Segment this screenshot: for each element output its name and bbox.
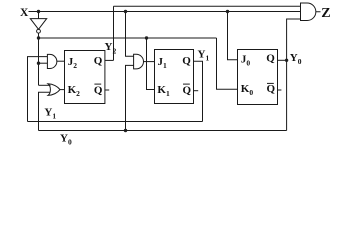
svg-text:Q: Q xyxy=(183,84,192,96)
svg-text:Q: Q xyxy=(182,55,191,67)
wire Qbar1 stub xyxy=(194,90,198,92)
wire Qbar0 stub xyxy=(278,89,282,91)
junction X to G3 xyxy=(124,10,127,13)
wire X' to G2 input xyxy=(39,84,51,86)
wire Y2 riser xyxy=(113,6,115,60)
wire X to inverter xyxy=(38,12,40,19)
wire Qbar2 stub xyxy=(105,89,109,91)
wire G2 to K2 xyxy=(60,89,65,91)
wire X' down to K1 xyxy=(147,38,155,90)
junction X to J0 xyxy=(226,10,229,13)
svg-text:Q: Q xyxy=(94,55,103,67)
wire Q1 out and Y1 riser xyxy=(194,61,203,121)
and-gate G3 xyxy=(134,54,144,69)
and-gate G1 xyxy=(47,54,56,68)
svg-text:X: X xyxy=(20,7,29,19)
svg-text:Q: Q xyxy=(94,84,103,96)
junction Q0 to Z riser xyxy=(285,59,288,62)
junction X to inverter xyxy=(37,10,40,13)
wire G4 to Z xyxy=(316,11,321,13)
or-gate G2 xyxy=(48,84,60,96)
wire Y2 top bus xyxy=(114,5,301,7)
wire Y0 feedback bus xyxy=(39,130,287,132)
junction X' to K1 xyxy=(145,36,148,39)
wire Y0 riser to G4 xyxy=(287,19,301,131)
wire Y0 up to G3 xyxy=(126,65,134,130)
svg-text:Z: Z xyxy=(321,6,330,21)
wire Q2 out xyxy=(105,59,114,61)
inverter U1 xyxy=(30,19,46,30)
junction X' to G1 xyxy=(37,62,40,65)
wire X bus xyxy=(29,11,301,13)
wire X down to J0 xyxy=(228,12,238,60)
wire Y1 feedback riser xyxy=(28,57,48,122)
wire X' vertical xyxy=(38,33,40,85)
junction X' tee xyxy=(37,36,40,39)
wire X' down to K0 xyxy=(217,38,238,89)
svg-text:Q: Q xyxy=(267,83,276,95)
flip-flop FF2 xyxy=(65,51,105,104)
wire G3 to J1 xyxy=(144,61,155,63)
and-gate G4 xyxy=(301,3,316,21)
svg-text:Q: Q xyxy=(266,53,275,65)
wire X down to G3 xyxy=(126,12,134,57)
junction Y0 to G3 xyxy=(124,129,127,132)
flip-flop FF1 xyxy=(155,50,194,104)
wire G1 to J2 xyxy=(57,60,65,62)
wire X' horizontal bus xyxy=(39,37,217,39)
flip-flop FF0 xyxy=(238,50,278,105)
wire X' to G1 input xyxy=(39,62,48,64)
wire Y1 feedback bus xyxy=(28,121,203,123)
wire Q0 out xyxy=(278,59,287,61)
wire Y0 to G2 input xyxy=(39,92,51,130)
